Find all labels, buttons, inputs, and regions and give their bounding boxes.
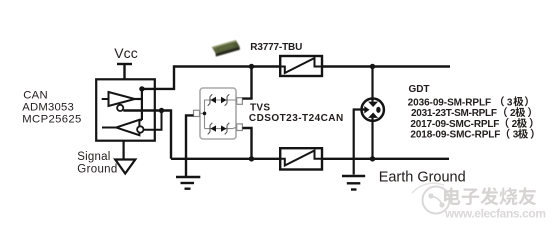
node pin1 rail junction [249, 64, 254, 69]
wire GDT bottom [371, 118, 373, 159]
SMD chip photo [212, 40, 241, 57]
node pin2 rail junction [249, 156, 254, 161]
signal ground symbol [115, 160, 135, 174]
svg-text:2: 2 [512, 119, 518, 130]
wire top bus rail [322, 65, 450, 67]
TVS internal rails [200, 100, 237, 129]
watermark text 电子发烧友 [444, 187, 536, 205]
svg-text:Earth Ground: Earth Ground [379, 170, 466, 186]
svg-text:GDT: GDT [409, 84, 430, 95]
diode D1 [208, 94, 216, 106]
TBU T2 box [280, 148, 322, 169]
label GDT part list CJK [501, 96, 534, 138]
svg-text:R3777-TBU: R3777-TBU [250, 42, 302, 53]
wire bottom bus rail [171, 158, 449, 160]
TVS pin 3 (left) [194, 110, 200, 116]
svg-text:2017-09-SMC-RPLF: 2017-09-SMC-RPLF [410, 119, 499, 130]
receiver inverting bubble [137, 126, 143, 132]
svg-text:CDSOT23-T24CAN: CDSOT23-T24CAN [249, 113, 343, 124]
diode D4 [221, 123, 229, 135]
wire CANH inside box [135, 88, 142, 120]
svg-text:2036-09-SM-RPLF: 2036-09-SM-RPLF [408, 97, 492, 108]
driver buffer A1 [102, 92, 135, 106]
svg-text:Signal: Signal [77, 151, 110, 163]
wire receiver input branch [143, 111, 161, 130]
wire TVS pin1 to CANH rail [242, 67, 251, 99]
svg-text:3: 3 [513, 130, 519, 141]
watermark logo circle [412, 183, 450, 213]
signal ground wire [122, 141, 124, 160]
TVS pin 2 (right bottom) [237, 124, 243, 131]
TBU T2 element [280, 151, 322, 166]
power Vcc tap [117, 64, 132, 79]
label GDT part list [408, 97, 519, 140]
TBU T1 box [280, 56, 322, 76]
svg-text:TVS: TVS [250, 103, 270, 114]
wire TVS pin2 to CANL rail [242, 128, 251, 159]
node CANH junction [139, 86, 144, 91]
svg-text:2: 2 [510, 108, 516, 119]
wire GDT electrode to earth [354, 110, 365, 175]
label Signal Ground [77, 151, 117, 176]
wire GDT top [371, 67, 373, 102]
TVS pin 1 (right top) [237, 98, 243, 105]
TBU T1 element [280, 58, 322, 73]
earth ground 2 [342, 176, 365, 190]
svg-text:2018-09-SMC-RPLF: 2018-09-SMC-RPLF [410, 130, 500, 141]
TVS U2 body [200, 88, 236, 139]
receiver buffer A2 [102, 120, 139, 135]
wire TVS common to earth [186, 115, 194, 176]
node CANL junction [159, 108, 164, 113]
earth ground 1 [176, 177, 200, 189]
wire CANL from driver bubble [123, 111, 171, 159]
diode D2 [221, 94, 229, 106]
svg-text:2031-23T-SM-RPLF: 2031-23T-SM-RPLF [411, 108, 497, 119]
svg-text:Vcc: Vcc [114, 45, 138, 61]
transceiver U1 box [96, 79, 155, 140]
label CAN / ADM3053 / MCP25625 [22, 89, 81, 125]
node TVS common [203, 112, 207, 116]
svg-text:3: 3 [507, 97, 513, 108]
GDT V1 [362, 99, 384, 121]
wire CANH to bus [142, 67, 280, 89]
diode D3 [208, 123, 216, 135]
svg-text:www.elecfans.com: www.elecfans.com [444, 206, 546, 220]
node GDT bottom junction [370, 156, 375, 161]
driver inverting bubble [117, 105, 123, 111]
node GDT top junction [370, 64, 375, 69]
svg-text:MCP25625: MCP25625 [22, 114, 81, 126]
svg-text:CAN: CAN [23, 89, 48, 101]
svg-text:ADM3053: ADM3053 [22, 102, 74, 114]
svg-text:Ground: Ground [77, 164, 117, 176]
